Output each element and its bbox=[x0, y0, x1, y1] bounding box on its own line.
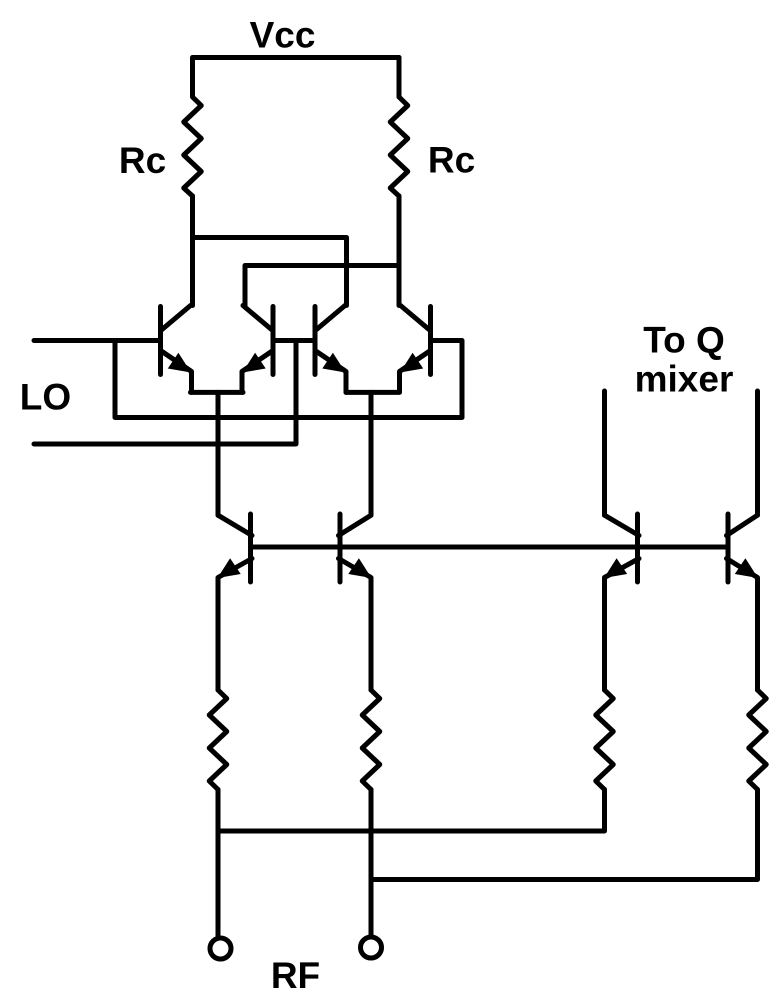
wire Rc1 bottom to Q1 collector bbox=[190, 196, 195, 306]
terminal RF- (circle) bbox=[361, 937, 382, 958]
wire Q mixer collector lead left bbox=[602, 391, 607, 515]
wire tail: Q3/Q4 emitters to Q6 collector bbox=[369, 392, 374, 515]
wire LO- input to Q2/Q3 bases bbox=[34, 341, 296, 445]
resistor Re3 (below Q7) bbox=[596, 690, 614, 790]
transistor Q2 (LO quad, inner left) bbox=[242, 306, 273, 393]
transistor Q5 (RF pair I, left) bbox=[218, 514, 253, 690]
wire Vcc rail bbox=[193, 55, 399, 60]
transistor Q4 (LO quad, outer right) bbox=[400, 306, 431, 393]
wire cross-couple: Q2 collector to Rc2 node bbox=[245, 266, 399, 306]
transistor Q3 (LO quad, inner right) bbox=[315, 306, 346, 393]
resistor Re4 (below Q8) bbox=[749, 690, 767, 790]
resistor Re2 (below Q6) bbox=[362, 690, 380, 790]
transistor Q7 (RF pair Q, left) bbox=[604, 514, 639, 690]
wire common RF base line Q5-Q8 bbox=[251, 545, 729, 550]
svg-text:Rc: Rc bbox=[119, 140, 166, 181]
wire Rc2 bottom to Q4 collector bbox=[397, 196, 402, 306]
transistor Q8 (RF pair Q, right) bbox=[727, 514, 759, 690]
wire cross-couple: Rc1 node to Q3 collector bbox=[193, 238, 347, 306]
svg-text:Rc: Rc bbox=[428, 140, 475, 181]
wire Q mixer collector lead right bbox=[755, 391, 760, 515]
transistor Q1 (LO quad, outer left) bbox=[161, 306, 192, 393]
label To Q mixer bbox=[635, 320, 734, 400]
resistor Rc2 (right) bbox=[390, 58, 408, 197]
wire LO+ feed to Q4 base bbox=[115, 341, 462, 418]
svg-text:To Q: To Q bbox=[643, 320, 725, 361]
wire RF- column to terminal bbox=[369, 790, 374, 936]
wire RF+ column to terminal bbox=[216, 790, 221, 937]
terminal RF+ (circle) bbox=[210, 938, 231, 959]
wire emitter rail of Q1/Q2 bbox=[191, 390, 244, 395]
wire emitter rail of Q3/Q4 bbox=[346, 390, 399, 395]
wire LO+ input to Q1 base bbox=[34, 338, 159, 343]
svg-text:Vcc: Vcc bbox=[250, 15, 316, 56]
svg-text:RF: RF bbox=[271, 955, 320, 996]
wire tail: Q1/Q2 emitters to Q5 collector bbox=[216, 392, 221, 515]
svg-text:mixer: mixer bbox=[635, 359, 734, 400]
transistor Q6 (RF pair I, right) bbox=[339, 514, 372, 690]
wire RF+ cross line to Re3 bbox=[218, 790, 605, 832]
resistor Rc1 (left) bbox=[184, 58, 202, 197]
resistor Re1 (below Q5) bbox=[209, 690, 227, 790]
wire RF- cross line to Re4 bbox=[371, 790, 758, 880]
wire Q2-Q3 common base bbox=[273, 338, 315, 343]
svg-text:LO: LO bbox=[20, 377, 71, 418]
